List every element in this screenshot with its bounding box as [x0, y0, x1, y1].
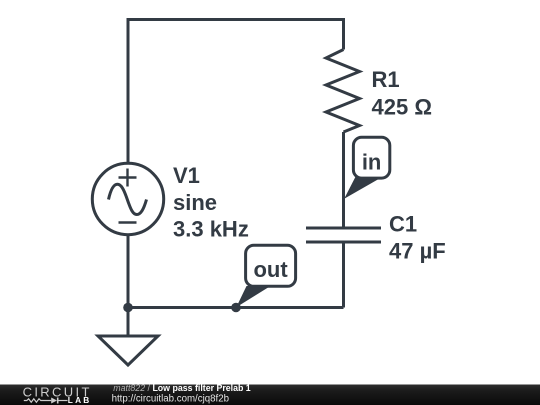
node flag out : tail — [236, 286, 270, 307]
svg-text:sine: sine — [173, 190, 217, 215]
wire ground stem — [127, 308, 130, 337]
wire V1 minus terminal to bottom rail — [127, 234, 130, 308]
ground symbol triangle — [98, 336, 158, 365]
svg-text:R1: R1 — [372, 67, 400, 92]
V1 sine wave — [109, 184, 147, 214]
svg-text:425 Ω: 425 Ω — [372, 94, 432, 119]
footer bar — [0, 385, 540, 405]
resistor R1 — [326, 50, 360, 133]
svg-text:V1: V1 — [173, 163, 200, 188]
svg-text:out: out — [253, 257, 288, 282]
capacitor C1 bottom plate — [306, 241, 381, 244]
svg-text:LAB: LAB — [68, 395, 92, 405]
footer logo diode — [51, 398, 57, 404]
svg-text:http://circuitlab.com/cjq8f2b: http://circuitlab.com/cjq8f2b — [112, 393, 229, 404]
svg-text:in: in — [362, 150, 382, 175]
svg-text:47 µF: 47 µF — [389, 239, 446, 264]
node flag in : box — [353, 137, 389, 178]
V1 plus sign — [119, 169, 137, 187]
wire top horizontal — [128, 18, 344, 21]
svg-text:matt822 / Low pass filter Prel: matt822 / Low pass filter Prelab 1 — [113, 383, 251, 393]
V1 minus sign — [119, 221, 137, 223]
voltage source V1 circle — [92, 163, 163, 234]
wire right vertical (top node to R1) — [342, 18, 345, 50]
svg-text:C1: C1 — [389, 211, 417, 236]
wire R1 bottom to C1 top — [342, 132, 345, 228]
svg-text:3.3 kHz: 3.3 kHz — [173, 217, 249, 242]
junction dot ground node — [123, 303, 133, 313]
wire left vertical (top node to V1 plus terminal) — [127, 18, 130, 165]
node flag in : tail — [344, 177, 380, 199]
footer logo resistor squiggle — [24, 399, 51, 402]
junction dot out node — [231, 303, 241, 313]
wire C1 bottom to bottom rail — [342, 242, 345, 308]
wire bottom horizontal rail — [128, 306, 344, 309]
node flag out : box — [246, 245, 296, 286]
capacitor C1 top plate — [306, 227, 381, 230]
